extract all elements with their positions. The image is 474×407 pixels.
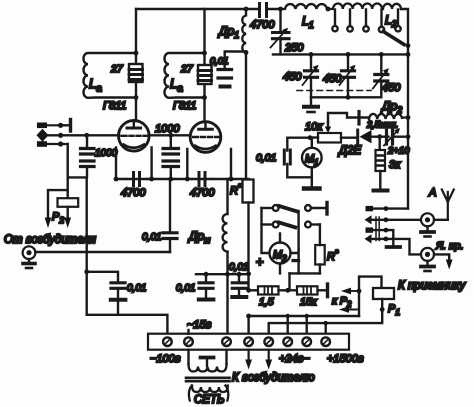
- wire M2 left leg: [262, 208, 270, 253]
- potentiometer 10k: [318, 122, 341, 143]
- wire pot left: [310, 136, 318, 138]
- transformer core: [186, 376, 230, 379]
- transformer secondary leads: [189, 350, 227, 364]
- terminal 7: [302, 337, 311, 346]
- svg-text:0,01: 0,01: [127, 283, 146, 294]
- switch M2 lower: [273, 222, 279, 228]
- svg-text:450: 450: [382, 82, 401, 94]
- node tank1 top: [134, 51, 139, 56]
- capacitor 1000 left grid: [81, 135, 95, 176]
- svg-text:~15в: ~15в: [187, 319, 212, 331]
- terminal 1: [163, 337, 172, 346]
- choke Drm filament: [223, 179, 228, 334]
- node grid junction mid: [168, 133, 173, 138]
- arrow to P2 coil lower: [343, 309, 359, 311]
- capacitor 450 no2: [340, 54, 356, 97]
- terminal 2: [184, 337, 193, 346]
- wire P1 bottom: [269, 299, 383, 334]
- wire right tank rail: [401, 9, 408, 209]
- switch M2 upper: [273, 205, 279, 211]
- node supply rail junction: [246, 288, 251, 293]
- capacitor 0.01 M1: [284, 150, 290, 164]
- wire 450 row bottom: [311, 96, 381, 98]
- wire M2 armature: [280, 211, 299, 250]
- svg-text:Я. пр.: Я. пр.: [435, 240, 464, 252]
- svg-text:0,01: 0,01: [256, 152, 276, 164]
- wire filament cap row: [196, 273, 249, 275]
- node Dr1 bottom: [244, 50, 249, 55]
- svg-text:От возбудителя: От возбудителя: [4, 234, 96, 246]
- svg-text:15к: 15к: [300, 296, 318, 308]
- ground 450 row: [304, 97, 318, 112]
- node bus junction: [244, 7, 249, 12]
- svg-text:2,5мгн.: 2,5мгн.: [366, 120, 398, 130]
- switch band selector arm: [383, 32, 404, 45]
- triode tube U2 G811: [190, 122, 221, 153]
- capacitor 450 no3: [373, 54, 389, 97]
- wire L1 tap 2: [349, 10, 351, 26]
- connector coax antenna: [421, 213, 448, 236]
- terminal 8: [321, 337, 330, 346]
- svg-text:А: А: [428, 187, 436, 199]
- node P1 bottom junction: [380, 307, 385, 312]
- svg-text:450: 450: [323, 73, 342, 85]
- terminal strip: [148, 334, 349, 350]
- wire bypass to Dr1: [225, 52, 246, 68]
- wire tube2 anode riser: [203, 9, 205, 122]
- capacitor 1000 mid grid: [163, 135, 179, 179]
- svg-text:−: −: [292, 253, 300, 268]
- wire gang dashed link: [297, 90, 371, 92]
- ground M1: [304, 186, 320, 190]
- node tank1 bottom: [134, 95, 139, 100]
- svg-text:1000: 1000: [155, 123, 180, 135]
- capacitor 0.01 filament right: [232, 274, 246, 297]
- wire 24v stubs: [288, 316, 307, 334]
- svg-text:450: 450: [283, 71, 302, 83]
- wire tube1 anode riser: [135, 9, 137, 121]
- relay contact row 1 left: [37, 120, 71, 132]
- capacitor 27 tank2: [198, 65, 212, 84]
- node diode out: [377, 134, 382, 139]
- wire pot right to diode: [341, 136, 357, 138]
- transformer center tap: [201, 356, 214, 360]
- resistor 1.5: [249, 286, 279, 294]
- wire bias rail down: [85, 177, 87, 314]
- transformer primary winding: [192, 386, 228, 393]
- capacitor 27 tank1: [129, 64, 143, 82]
- antenna relay contact row4 armature: [365, 234, 422, 254]
- wire L1 tap 3: [365, 10, 367, 26]
- capacitor 0.01 cathode drive: [163, 180, 177, 252]
- svg-text:27: 27: [110, 63, 124, 75]
- antenna relay contact row2 armature: [365, 215, 422, 224]
- wire relay mechanical link: [376, 217, 379, 241]
- inductor La2: [165, 53, 205, 98]
- node R* rail junction: [246, 271, 251, 276]
- node filament junctions: [204, 272, 209, 277]
- node cathode bus junctions: [114, 177, 119, 182]
- svg-text:0,01: 0,01: [176, 283, 195, 294]
- svg-text:250: 250: [284, 42, 304, 54]
- svg-text:+: +: [256, 254, 264, 269]
- antenna relay contact row3: [366, 227, 401, 247]
- inductor L2: [383, 4, 401, 9]
- wire grid bus: [61, 134, 191, 136]
- svg-text:1,5: 1,5: [259, 296, 274, 308]
- diode D2E: [358, 130, 389, 144]
- node rail-diode-row junction: [406, 134, 411, 139]
- svg-text:4700: 4700: [121, 187, 146, 199]
- svg-text:СЕТЬ: СЕТЬ: [194, 394, 225, 406]
- wire 15v stub: [187, 330, 189, 334]
- capacitor plates 0.01 bypass: [218, 68, 232, 71]
- arrow to exciter 2: [268, 350, 270, 364]
- wire 1500v stub: [325, 323, 327, 334]
- svg-text:Г811: Г811: [173, 100, 197, 112]
- capacitor 450 no1: [303, 54, 319, 97]
- node grid junction left: [84, 133, 89, 138]
- choke Dr1: [242, 9, 246, 53]
- capacitor 0.01 filament left: [199, 274, 214, 299]
- wire 450 row top: [273, 53, 406, 55]
- arrow to P2 coil upper: [345, 290, 359, 292]
- capacitor 4700 top: [260, 4, 267, 17]
- svg-text:0,01: 0,01: [142, 232, 161, 243]
- relay coil P1: [373, 288, 394, 299]
- capacitor 250 variable: [271, 9, 290, 54]
- transformer secondary winding: [189, 364, 227, 372]
- svg-text:К возбудителю: К возбудителю: [232, 372, 315, 384]
- svg-text:Г811: Г811: [103, 100, 127, 112]
- node return junction: [246, 314, 251, 319]
- capacitor coupling bar: [357, 112, 360, 125]
- wire pot wiper to coupling: [328, 113, 369, 122]
- svg-text:0,01: 0,01: [210, 56, 229, 67]
- capacitor 2+10 trimmer: [384, 128, 406, 146]
- svg-text:+24в−: +24в−: [279, 353, 310, 365]
- ground 3k: [374, 189, 388, 193]
- resistor 3k: [376, 137, 386, 188]
- wire P1 hat: [359, 277, 382, 316]
- svg-text:К приемнику: К приемнику: [398, 280, 466, 292]
- svg-text:10к: 10к: [305, 121, 323, 133]
- connector coax input: [23, 246, 36, 268]
- wire cathode bus: [116, 148, 249, 180]
- antenna relay contact row1: [366, 206, 409, 211]
- wire M2 bottom: [280, 250, 299, 273]
- svg-text:27: 27: [180, 63, 194, 75]
- wire bias dropper: [68, 144, 87, 177]
- wire supply return run: [249, 316, 359, 334]
- svg-text:Д2Е: Д2Е: [337, 145, 361, 157]
- resistor 15k: [279, 284, 328, 297]
- arrow to exciter 1: [248, 350, 250, 364]
- choke Dr2: [369, 114, 406, 119]
- node bus junction2: [278, 7, 283, 12]
- node bias rail junction: [84, 269, 89, 274]
- wire top plate bus: [136, 8, 281, 10]
- relay coil P2: [45, 177, 79, 228]
- resistor R* anode: [243, 53, 254, 291]
- wire M1 top: [287, 138, 310, 151]
- wire input drive: [35, 251, 170, 253]
- svg-text:0,01: 0,01: [229, 262, 248, 273]
- node tank2 top: [202, 51, 207, 56]
- tank 1 anode circuit: [84, 9, 143, 121]
- svg-text:4700: 4700: [250, 19, 275, 31]
- transformer primary leads bracket: [189, 386, 192, 401]
- motor M1: [302, 148, 322, 168]
- relay contact row 3 left: [37, 141, 68, 147]
- triode tube U1 G811: [119, 121, 150, 152]
- connector coax receiver: [421, 248, 453, 271]
- svg-text:−100в: −100в: [150, 353, 181, 365]
- node rail-Dr2 junction: [406, 115, 411, 120]
- node L1 tap junction: [326, 7, 331, 12]
- node rail-450row junction: [406, 52, 411, 57]
- motor M1 block: [284, 135, 321, 188]
- svg-text:+1500в: +1500в: [327, 353, 364, 365]
- node rail-arm junction: [406, 43, 411, 48]
- motor M2 block: [262, 203, 328, 291]
- motor M2: [270, 243, 291, 264]
- tank 2 anode circuit: [165, 9, 212, 122]
- svg-text:2+10: 2+10: [387, 146, 410, 157]
- terminal 5: [264, 337, 273, 346]
- terminal 6: [283, 337, 292, 346]
- terminal 4: [244, 337, 253, 346]
- capacitor 4700 tube1 cathode: [127, 173, 146, 186]
- capacitor 4700 tube2 cathode: [193, 173, 212, 186]
- inductor La1: [84, 53, 137, 98]
- relay contact row 2 armature: [37, 129, 64, 142]
- svg-text:1000: 1000: [95, 148, 118, 159]
- resistor R* M2: [315, 245, 325, 265]
- terminal 3: [222, 337, 231, 346]
- switch band selector pivot: [380, 10, 382, 27]
- node 15k junction: [285, 288, 290, 293]
- capacitor 0.01 plate bypass: [210, 52, 246, 87]
- wire L2 tap: [397, 10, 399, 26]
- wire bias bottom run: [87, 315, 168, 334]
- node P1 left junction: [357, 289, 362, 294]
- wire L1 tap 1: [334, 10, 336, 26]
- inductor L1 tapped coil: [281, 4, 327, 9]
- svg-text:3к: 3к: [389, 159, 401, 171]
- transformer power: [186, 350, 230, 401]
- capacitor 0.01 bias left: [87, 272, 126, 315]
- node 450 row junctions: [309, 52, 314, 57]
- antenna symbol: [442, 190, 454, 220]
- svg-text:4700: 4700: [190, 187, 215, 199]
- node tank2 bottom: [202, 95, 207, 100]
